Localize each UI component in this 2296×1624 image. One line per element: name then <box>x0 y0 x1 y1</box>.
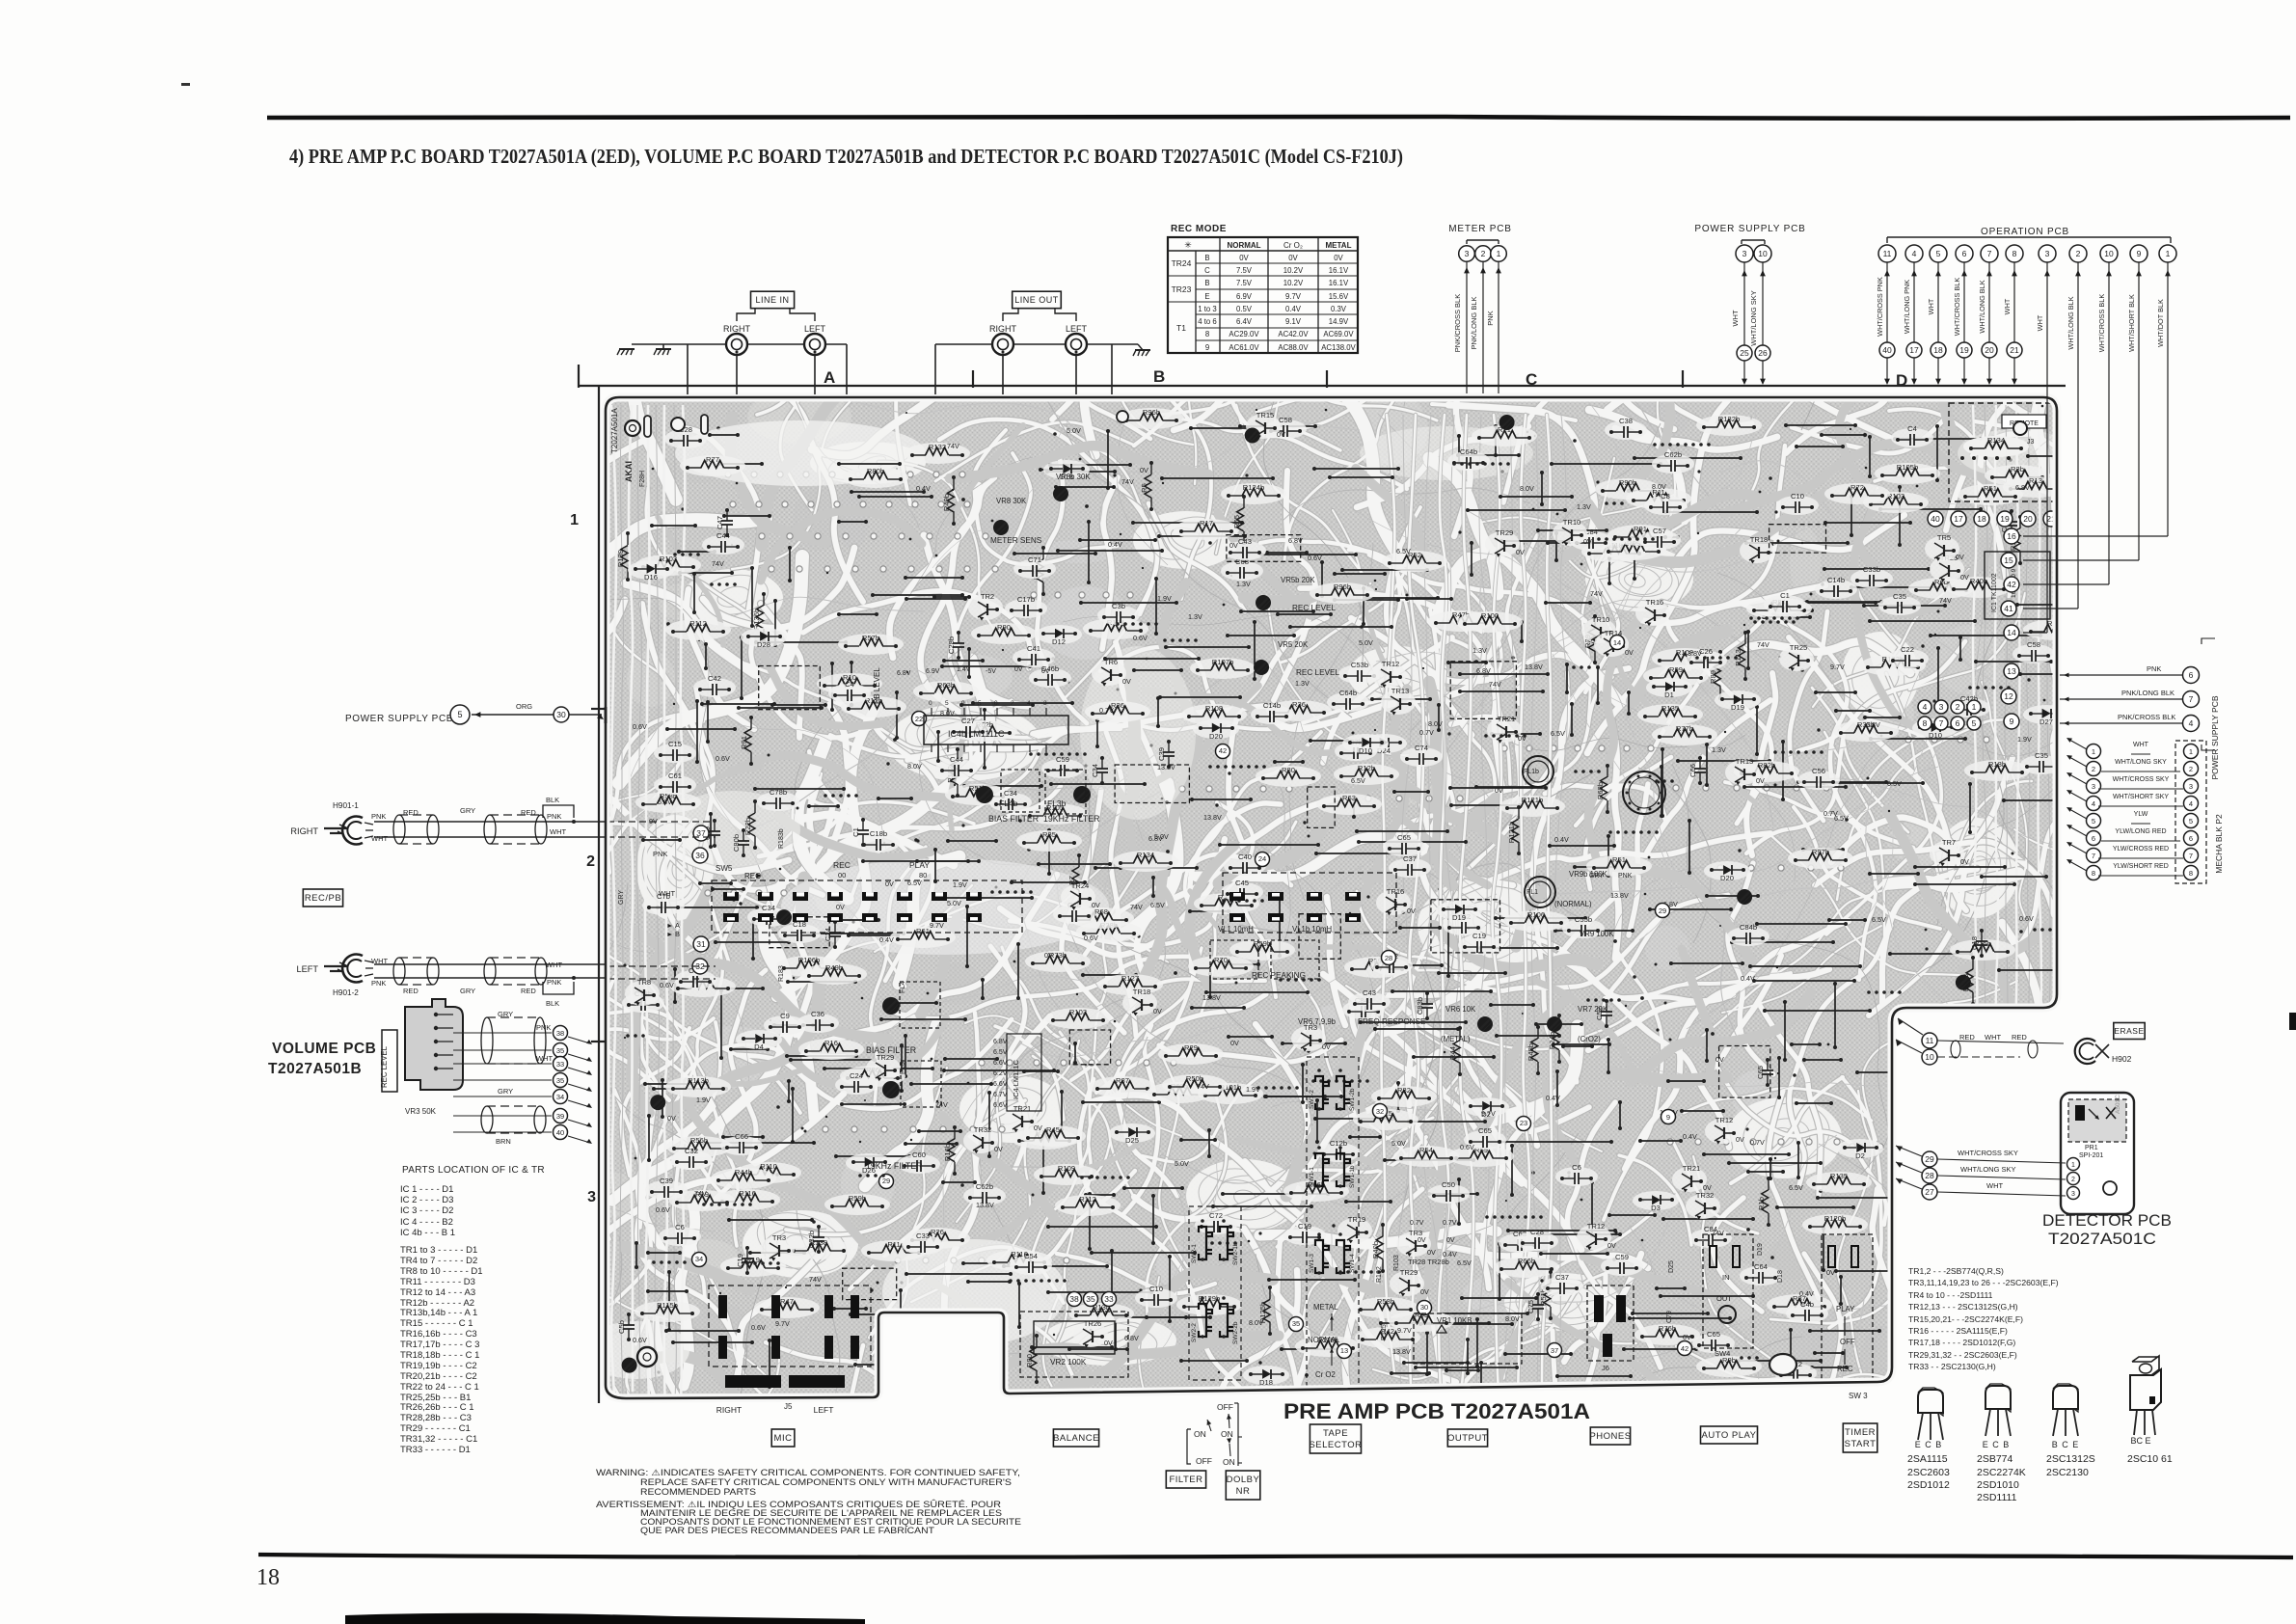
svg-text:5.0V: 5.0V <box>947 899 961 907</box>
svg-text:TR13: TR13 <box>1736 757 1754 766</box>
svg-text:C61: C61 <box>668 771 682 780</box>
svg-text:C56: C56 <box>1812 767 1825 775</box>
svg-text:R17: R17 <box>1200 519 1213 528</box>
svg-text:9.1V: 9.1V <box>1285 317 1302 326</box>
svg-text:0V: 0V <box>1041 668 1050 675</box>
svg-text:R183: R183 <box>778 965 785 982</box>
svg-text:METER SENS: METER SENS <box>990 536 1042 545</box>
svg-text:9: 9 <box>961 700 965 707</box>
svg-text:10.2V: 10.2V <box>1283 279 1304 287</box>
svg-text:R87: R87 <box>1116 1076 1129 1085</box>
svg-text:PNK: PNK <box>547 978 561 987</box>
svg-text:AC61.0V: AC61.0V <box>1229 343 1259 352</box>
svg-text:4: 4 <box>2189 718 2194 728</box>
svg-text:C44: C44 <box>950 755 963 764</box>
svg-text:TR29: TR29 <box>1496 528 1514 537</box>
svg-text:OPERATION PCB: OPERATION PCB <box>1981 227 2069 237</box>
svg-text:R44: R44 <box>1448 1046 1457 1060</box>
svg-text:C34: C34 <box>1091 764 1099 777</box>
svg-text:32: 32 <box>1376 1107 1384 1116</box>
svg-text:33: 33 <box>556 1060 564 1069</box>
svg-text:R47: R47 <box>780 1297 794 1306</box>
svg-text:D18: D18 <box>1259 1378 1273 1387</box>
svg-text:6.5V: 6.5V <box>1789 1183 1803 1192</box>
svg-text:2: 2 <box>586 853 595 870</box>
svg-text:WHT/SHORT SKY: WHT/SHORT SKY <box>2113 794 2169 800</box>
svg-text:FILTER: FILTER <box>1169 1475 1202 1485</box>
svg-text:✳: ✳ <box>1184 240 1192 250</box>
svg-text:0.4V: 0.4V <box>1285 305 1302 313</box>
svg-text:0.6V: 0.6V <box>1133 634 1148 642</box>
svg-text:C78b: C78b <box>770 788 787 797</box>
svg-text:9.7V: 9.7V <box>775 1319 790 1328</box>
svg-text:0V: 0V <box>1960 573 1969 582</box>
svg-text:C65: C65 <box>1756 1066 1765 1079</box>
svg-text:R80: R80 <box>1025 1354 1034 1367</box>
svg-text:8.0V: 8.0V <box>1520 484 1534 493</box>
svg-text:1: 1 <box>2189 747 2193 756</box>
svg-text:8.0V: 8.0V <box>1505 1314 1520 1323</box>
svg-text:R135: R135 <box>1830 1172 1848 1180</box>
svg-text:0V: 0V <box>1956 553 1964 561</box>
svg-text:C74: C74 <box>1415 744 1428 752</box>
svg-text:F28H: F28H <box>639 471 646 487</box>
svg-text:WHT: WHT <box>659 889 675 898</box>
svg-text:BLK: BLK <box>546 796 559 804</box>
svg-text:4: 4 <box>1027 700 1031 707</box>
svg-text:R80b: R80b <box>867 467 884 475</box>
svg-text:R59b: R59b <box>849 1194 866 1203</box>
svg-text:74V: 74V <box>1757 640 1769 649</box>
svg-text:0.3V: 0.3V <box>1331 305 1347 313</box>
svg-text:8.0V: 8.0V <box>907 762 922 771</box>
svg-text:6.9V: 6.9V <box>926 668 940 675</box>
svg-text:R113b: R113b <box>688 1076 709 1085</box>
svg-text:0.6V: 0.6V <box>633 722 647 731</box>
svg-text:0: 0 <box>994 700 998 707</box>
svg-text:PNK: PNK <box>371 812 386 821</box>
svg-text:42: 42 <box>1681 1344 1688 1353</box>
svg-text:10.2V: 10.2V <box>1283 266 1304 275</box>
svg-text:SW1-2: SW1-2 <box>1309 1090 1315 1109</box>
svg-text:RIGHT: RIGHT <box>989 324 1017 334</box>
svg-text:24: 24 <box>1258 854 1266 863</box>
svg-text:LEFT: LEFT <box>814 1405 834 1415</box>
svg-text:2: 2 <box>1481 249 1486 258</box>
svg-text:R51: R51 <box>1612 855 1626 864</box>
svg-text:C4: C4 <box>1907 424 1917 433</box>
svg-text:18: 18 <box>1977 514 1986 524</box>
svg-text:6.5V: 6.5V <box>1150 901 1165 909</box>
svg-text:T2027A501B: T2027A501B <box>268 1061 362 1077</box>
svg-text:TR16,16b - - - - C3: TR16,16b - - - - C3 <box>400 1329 477 1340</box>
svg-text:R132b: R132b <box>1718 415 1740 423</box>
svg-text:TR21: TR21 <box>1013 1104 1032 1113</box>
svg-text:34: 34 <box>695 1255 703 1263</box>
svg-text:WHT: WHT <box>550 827 566 836</box>
svg-text:C12b: C12b <box>1330 1139 1347 1148</box>
svg-text:SW2-2: SW2-2 <box>1191 1323 1198 1342</box>
svg-text:6.6V: 6.6V <box>993 1060 1008 1067</box>
svg-text:4: 4 <box>1912 249 1917 258</box>
svg-text:TR22 to 24 - - - C 1: TR22 to 24 - - - C 1 <box>400 1382 479 1393</box>
svg-text:0V: 0V <box>1014 666 1023 673</box>
svg-text:-5V: -5V <box>986 668 996 675</box>
svg-text:0.4V: 0.4V <box>916 484 931 493</box>
svg-text:C54: C54 <box>1024 1252 1038 1260</box>
svg-text:WHT: WHT <box>1731 310 1740 326</box>
svg-text:0.6V: 0.6V <box>633 1336 647 1344</box>
svg-text:C79: C79 <box>1666 1311 1673 1323</box>
svg-text:C6: C6 <box>675 1223 685 1232</box>
svg-text:6.8V: 6.8V <box>2015 483 2030 492</box>
svg-text:23: 23 <box>1520 1119 1527 1127</box>
svg-text:AC29.0V: AC29.0V <box>1229 330 1259 338</box>
svg-text:R91: R91 <box>1634 525 1647 533</box>
svg-text:C50: C50 <box>1442 1180 1455 1189</box>
svg-text:R51: R51 <box>1984 484 1997 493</box>
svg-text:Cr O₂: Cr O₂ <box>1283 241 1303 250</box>
svg-text:WHT: WHT <box>546 961 562 969</box>
svg-text:6: 6 <box>1956 718 1960 728</box>
svg-text:0V: 0V <box>1715 1055 1724 1064</box>
svg-text:1.9V: 1.9V <box>953 880 967 889</box>
svg-text:74V: 74V <box>1712 1229 1724 1237</box>
svg-text:C64: C64 <box>1754 1262 1768 1271</box>
svg-text:6.8V: 6.8V <box>1124 1334 1139 1342</box>
svg-text:C55b: C55b <box>1575 915 1592 924</box>
svg-text:D: D <box>1896 371 1907 390</box>
svg-text:10: 10 <box>2104 249 2114 258</box>
svg-text:0V: 0V <box>1034 1123 1042 1132</box>
svg-text:0V: 0V <box>1277 430 1285 439</box>
svg-text:0.6V: 0.6V <box>751 1323 766 1332</box>
svg-text:R16: R16 <box>824 1039 838 1047</box>
svg-text:PLAY: PLAY <box>1836 1305 1855 1313</box>
svg-text:R18b: R18b <box>1988 760 2006 769</box>
svg-text:C43: C43 <box>1363 988 1376 997</box>
svg-text:C1: C1 <box>1780 591 1790 600</box>
svg-text:18: 18 <box>1933 345 1943 355</box>
svg-text:D25: D25 <box>1668 1260 1675 1273</box>
svg-text:B: B <box>1153 367 1165 386</box>
svg-text:WHT: WHT <box>371 834 388 843</box>
svg-text:R77: R77 <box>706 455 719 464</box>
svg-text:6.8V: 6.8V <box>1476 666 1491 675</box>
svg-text:D10: D10 <box>1929 731 1942 740</box>
svg-text:R63b: R63b <box>937 681 955 690</box>
svg-text:0V: 0V <box>1446 1237 1455 1244</box>
svg-text:VR7 20K: VR7 20K <box>1578 1005 1608 1014</box>
svg-text:RED: RED <box>403 987 419 995</box>
svg-text:VR2 100K: VR2 100K <box>1050 1358 1087 1367</box>
svg-text:R127: R127 <box>1121 974 1139 983</box>
svg-text:C58: C58 <box>2027 640 2040 649</box>
svg-text:6.5V: 6.5V <box>993 1049 1008 1056</box>
svg-text:16.1V: 16.1V <box>1329 266 1349 275</box>
svg-text:START: START <box>1845 1439 1877 1449</box>
svg-text:1.9V: 1.9V <box>1157 594 1172 603</box>
svg-text:0V: 0V <box>1703 1183 1712 1192</box>
svg-text:9: 9 <box>1205 343 1209 352</box>
svg-text:C24: C24 <box>824 928 832 941</box>
svg-text:C34: C34 <box>1004 789 1017 798</box>
svg-text:R121b: R121b <box>1507 822 1516 843</box>
svg-text:C10: C10 <box>1791 492 1804 501</box>
svg-text:14: 14 <box>2007 628 2016 637</box>
svg-text:AC138.0V: AC138.0V <box>1321 343 1356 352</box>
svg-text:13: 13 <box>1340 1346 1348 1355</box>
svg-text:40: 40 <box>1882 345 1892 355</box>
svg-text:FL1: FL1 <box>1526 889 1538 896</box>
svg-text:R35: R35 <box>1042 830 1056 839</box>
svg-text:13.8V: 13.8V <box>976 1201 994 1209</box>
svg-text:A: A <box>824 368 835 387</box>
svg-text:PNK: PNK <box>1486 311 1495 325</box>
svg-text:R106: R106 <box>1527 910 1545 919</box>
svg-text:R183b: R183b <box>778 828 785 849</box>
svg-text:C17b: C17b <box>1017 595 1035 604</box>
svg-text:FL4: FL4 <box>898 981 906 993</box>
svg-text:ON: ON <box>1194 1429 1206 1439</box>
svg-text:R32: R32 <box>1397 1086 1411 1095</box>
svg-text:C45: C45 <box>1235 879 1249 887</box>
svg-text:AC69.0V: AC69.0V <box>1323 330 1354 338</box>
svg-text:35: 35 <box>556 1046 564 1055</box>
svg-text:WHT: WHT <box>2036 314 2044 331</box>
svg-text:C3b: C3b <box>1112 602 1125 610</box>
svg-text:9.7V: 9.7V <box>1830 663 1845 671</box>
svg-text:18: 18 <box>257 1565 280 1590</box>
svg-text:0V: 0V <box>1140 466 1148 474</box>
svg-text:AUTO PLAY: AUTO PLAY <box>1702 1430 1757 1441</box>
svg-text:0.6V: 0.6V <box>1460 1143 1474 1151</box>
svg-text:38: 38 <box>1069 1294 1079 1304</box>
svg-text:9: 9 <box>2010 717 2014 726</box>
svg-text:9: 9 <box>1666 1113 1670 1122</box>
svg-text:IC 1 - - - - D1: IC 1 - - - - D1 <box>400 1184 453 1195</box>
svg-text:19KHz FILTER: 19KHz FILTER <box>866 1161 923 1171</box>
svg-text:C41: C41 <box>1027 644 1040 653</box>
svg-text:TR5: TR5 <box>1937 533 1951 542</box>
svg-text:PNK: PNK <box>653 850 667 858</box>
svg-text:0.4V: 0.4V <box>1799 1289 1814 1298</box>
svg-text:R90b: R90b <box>1619 478 1636 487</box>
svg-text:1.3V: 1.3V <box>1236 580 1251 588</box>
svg-text:6.2V: 6.2V <box>993 1070 1008 1077</box>
svg-text:0.4V: 0.4V <box>1741 974 1755 983</box>
svg-text:1: 1 <box>1497 249 1501 258</box>
svg-text:NORMAL: NORMAL <box>1308 1336 1340 1344</box>
svg-text:R49b: R49b <box>942 494 951 511</box>
svg-text:6.8V: 6.8V <box>1866 720 1880 729</box>
svg-text:0V: 0V <box>994 1145 1003 1153</box>
svg-text:TR16: TR16 <box>1646 598 1664 607</box>
svg-text:H901-1: H901-1 <box>333 801 359 810</box>
svg-text:T2027A501A: T2027A501A <box>610 408 619 453</box>
svg-text:5.0V: 5.0V <box>1359 638 1373 647</box>
svg-text:3: 3 <box>2092 782 2095 791</box>
svg-text:SELECTOR: SELECTOR <box>1309 1440 1362 1450</box>
svg-text:TR18: TR18 <box>1133 988 1151 996</box>
svg-text:SW1-2b: SW1-2b <box>1349 1088 1356 1111</box>
svg-text:0V: 0V <box>1960 857 1969 866</box>
svg-text:POWER SUPPLY PCB: POWER SUPPLY PCB <box>2210 695 2220 779</box>
svg-text:5.0V: 5.0V <box>1067 426 1081 435</box>
svg-text:TR2: TR2 <box>981 592 994 601</box>
svg-text:R136b: R136b <box>752 609 761 630</box>
svg-text:5: 5 <box>457 710 462 719</box>
svg-text:TR28 TR28b: TR28 TR28b <box>1408 1258 1449 1266</box>
svg-text:30: 30 <box>1420 1303 1428 1312</box>
svg-text:TR26,26b - - - C 1: TR26,26b - - - C 1 <box>400 1402 474 1413</box>
svg-text:R68b: R68b <box>1596 782 1605 799</box>
svg-text:R77b: R77b <box>1676 724 1693 733</box>
svg-text:RED: RED <box>403 808 419 817</box>
svg-text:TR24: TR24 <box>1172 258 1192 268</box>
svg-text:R102: R102 <box>1376 1266 1383 1283</box>
svg-text:R108: R108 <box>1205 704 1223 713</box>
svg-text:0.6V: 0.6V <box>716 754 730 763</box>
svg-text:BALANCE: BALANCE <box>1053 1433 1099 1444</box>
svg-text:R80: R80 <box>1282 766 1295 774</box>
svg-text:20: 20 <box>2023 514 2033 524</box>
svg-text:C60: C60 <box>912 1150 926 1159</box>
svg-text:22: 22 <box>915 715 923 723</box>
svg-text:3: 3 <box>2045 249 2050 258</box>
svg-text:R107b: R107b <box>1212 658 1233 666</box>
svg-text:D12: D12 <box>1052 637 1066 646</box>
svg-text:C35: C35 <box>2035 751 2048 760</box>
svg-text:J5: J5 <box>784 1402 793 1411</box>
svg-text:TR13b,14b - - - A 1: TR13b,14b - - - A 1 <box>400 1308 477 1318</box>
svg-text:D2: D2 <box>1855 1151 1865 1160</box>
svg-text:PNK: PNK <box>547 812 561 821</box>
svg-text:C65: C65 <box>1478 1126 1492 1135</box>
svg-text:GRY: GRY <box>498 1010 513 1018</box>
svg-text:29: 29 <box>882 1177 890 1185</box>
svg-text:FREQ RESPONSE: FREQ RESPONSE <box>1358 1017 1426 1026</box>
svg-text:0V: 0V <box>1427 1248 1436 1257</box>
svg-text:26: 26 <box>1758 348 1768 358</box>
svg-text:IC 2 - - - - D3: IC 2 - - - - D3 <box>400 1195 453 1205</box>
svg-text:0V: 0V <box>1736 1135 1744 1144</box>
svg-text:VR3 50K: VR3 50K <box>405 1107 437 1116</box>
svg-text:WHT: WHT <box>2133 742 2149 748</box>
svg-text:4: 4 <box>2189 799 2193 808</box>
svg-text:TR32: TR32 <box>1696 1191 1715 1200</box>
svg-text:0V: 0V <box>1407 907 1416 915</box>
svg-text:19: 19 <box>2000 514 2010 524</box>
svg-text:C40: C40 <box>1238 853 1252 861</box>
svg-text:TR19,19b - - - - C2: TR19,19b - - - - C2 <box>400 1361 477 1371</box>
svg-text:C: C <box>1526 370 1537 389</box>
svg-text:GRY: GRY <box>460 987 475 995</box>
svg-text:D20: D20 <box>1720 874 1734 882</box>
svg-text:WHT/LONG BLK: WHT/LONG BLK <box>1978 280 1986 333</box>
svg-text:FL3: FL3 <box>898 1062 906 1074</box>
svg-text:OFF: OFF <box>1196 1456 1212 1466</box>
svg-text:REC MODE: REC MODE <box>1171 224 1227 234</box>
svg-text:(CrO2): (CrO2) <box>1578 1035 1601 1043</box>
svg-text:IC 4 - - - - B2: IC 4 - - - - B2 <box>400 1217 453 1228</box>
svg-text:VOLUME PCB: VOLUME PCB <box>272 1041 376 1057</box>
svg-text:42: 42 <box>1219 746 1227 755</box>
svg-text:TR10: TR10 <box>1563 518 1581 527</box>
svg-text:Cr O2: Cr O2 <box>1315 1370 1336 1379</box>
svg-text:74V: 74V <box>1590 589 1603 598</box>
svg-text:TR25: TR25 <box>1790 643 1808 652</box>
svg-text:C62b: C62b <box>976 1182 993 1191</box>
svg-text:D3: D3 <box>1651 1204 1661 1212</box>
svg-text:0V: 0V <box>667 1114 676 1123</box>
svg-text:TR11 - - - - - - - D3: TR11 - - - - - - - D3 <box>400 1277 475 1287</box>
svg-text:0: 0 <box>929 700 932 707</box>
svg-text:VR6,7,9,9b: VR6,7,9,9b <box>1298 1017 1337 1026</box>
svg-text:5.0V: 5.0V <box>1175 1159 1189 1168</box>
svg-text:TR12: TR12 <box>1715 1116 1734 1124</box>
svg-text:VR8b 30K: VR8b 30K <box>1056 473 1091 481</box>
svg-text:PLAY: PLAY <box>909 860 930 870</box>
svg-text:7: 7 <box>1939 718 1944 728</box>
svg-text:R91: R91 <box>740 736 748 749</box>
svg-text:D19: D19 <box>1452 913 1466 922</box>
svg-text:TR12: TR12 <box>1382 660 1400 668</box>
svg-text:ON: ON <box>1221 1429 1233 1439</box>
svg-text:0.6V: 0.6V <box>2019 914 2034 923</box>
svg-text:D1: D1 <box>1664 690 1674 699</box>
svg-text:C8: C8 <box>1661 492 1670 501</box>
svg-text:R106b: R106b <box>798 956 820 964</box>
svg-text:C1: C1 <box>851 827 860 837</box>
svg-text:6.5V: 6.5V <box>1351 776 1365 785</box>
svg-text:AKAI: AKAI <box>624 461 634 482</box>
svg-text:15: 15 <box>2004 555 2013 565</box>
svg-text:TR17,17b - - - - C 3: TR17,17b - - - - C 3 <box>400 1340 479 1350</box>
svg-text:31: 31 <box>696 939 706 949</box>
svg-text:VR5 20K: VR5 20K <box>1278 640 1309 649</box>
svg-text:VL1 10mH: VL1 10mH <box>1218 925 1254 934</box>
svg-text:80: 80 <box>919 871 927 880</box>
svg-text:TR20,21b - - - - C2: TR20,21b - - - - C2 <box>400 1371 477 1382</box>
svg-text:25: 25 <box>1740 348 1749 358</box>
svg-text:C37: C37 <box>1555 1273 1569 1282</box>
svg-text:10: 10 <box>1758 249 1768 258</box>
svg-text:C39: C39 <box>660 1177 673 1185</box>
svg-text:SW1-3: SW1-3 <box>1309 1254 1315 1273</box>
svg-text:C19: C19 <box>736 1254 744 1267</box>
svg-text:0.7V: 0.7V <box>1419 728 1434 737</box>
svg-text:0.7V: 0.7V <box>1410 1220 1424 1227</box>
svg-text:C15: C15 <box>668 740 682 748</box>
svg-text:IC 4b - - - B 1: IC 4b - - - B 1 <box>400 1228 455 1238</box>
svg-text:C39: C39 <box>1157 747 1166 761</box>
svg-text:C28: C28 <box>1530 1228 1544 1236</box>
svg-text:C5b: C5b <box>617 1320 626 1334</box>
svg-text:TR19: TR19 <box>1348 1215 1366 1224</box>
svg-text:29: 29 <box>1659 907 1666 915</box>
svg-text:C34: C34 <box>762 904 775 912</box>
svg-text:BIAS FILTER: BIAS FILTER <box>988 814 1039 824</box>
svg-text:R63: R63 <box>1342 794 1356 802</box>
svg-text:35: 35 <box>1086 1294 1095 1304</box>
svg-text:13.8V: 13.8V <box>1202 993 1221 1002</box>
svg-text:C47: C47 <box>716 516 724 529</box>
svg-text:VR1 10KB: VR1 10KB <box>1437 1316 1472 1325</box>
svg-text:TR18,18b - - - - C 1: TR18,18b - - - - C 1 <box>400 1350 479 1361</box>
svg-text:0.6V: 0.6V <box>656 1205 670 1214</box>
svg-text:FL1b: FL1b <box>1524 769 1539 775</box>
